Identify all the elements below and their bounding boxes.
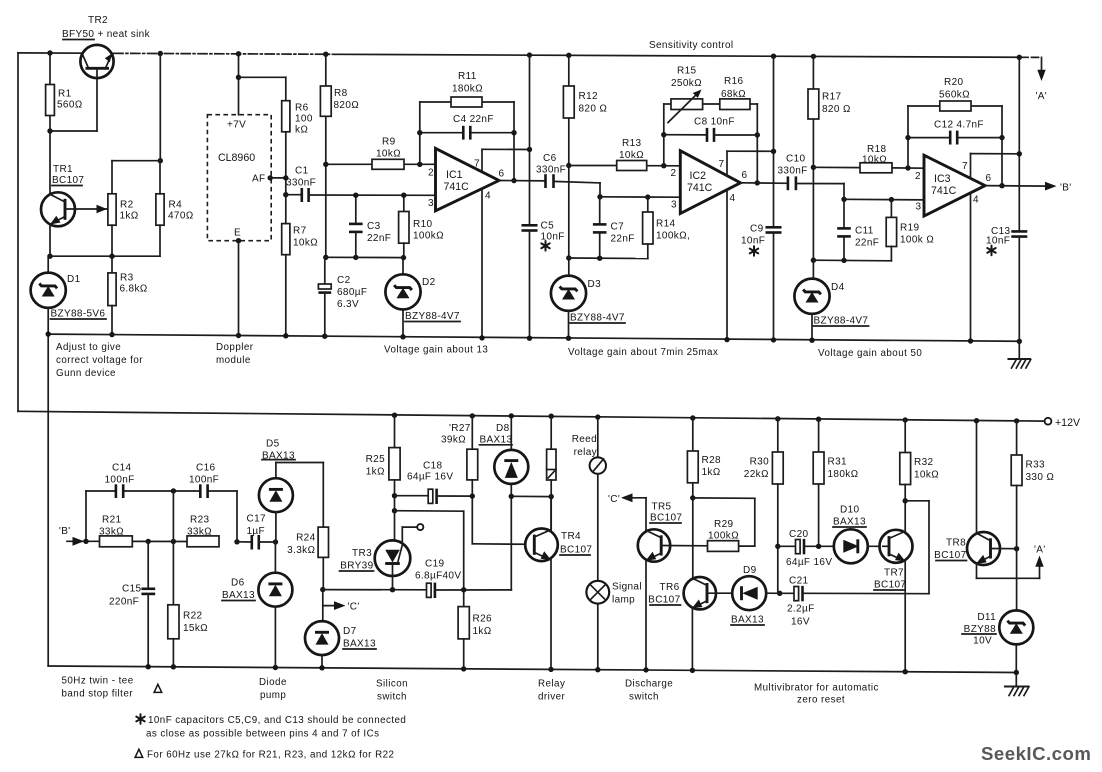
wire: TR4 base feed bbox=[472, 543, 534, 546]
svg-text:'C': 'C' bbox=[608, 494, 620, 505]
svg-text:R1: R1 bbox=[58, 89, 72, 100]
diode D6 (BAX13) bbox=[222, 542, 292, 670]
pin 4 IC2 bbox=[726, 190, 728, 340]
resistor R14 bbox=[643, 197, 691, 258]
svg-text:TR3: TR3 bbox=[352, 548, 372, 559]
capacitor C9 bbox=[741, 224, 782, 343]
svg-text:pump: pump bbox=[260, 690, 286, 701]
node 'A' bottom label bbox=[1034, 545, 1046, 556]
svg-text:BZY88-4V7: BZY88-4V7 bbox=[405, 311, 460, 322]
svg-text:4: 4 bbox=[485, 191, 491, 202]
resistor R9 bbox=[372, 137, 404, 170]
wire: R28 node down to TR6 collector bbox=[692, 498, 694, 578]
svg-text:22kΩ: 22kΩ bbox=[744, 469, 769, 480]
svg-text:BC107: BC107 bbox=[560, 545, 592, 556]
svg-text:560kΩ: 560kΩ bbox=[939, 90, 970, 101]
svg-text:BC107: BC107 bbox=[934, 550, 966, 561]
resistor R12 bbox=[563, 86, 607, 118]
svg-text:3: 3 bbox=[671, 200, 677, 211]
wire: R2/R4 top link from rail bbox=[112, 51, 163, 194]
svg-text:'B': 'B' bbox=[59, 526, 71, 537]
wire: twin-tee cap branch bbox=[83, 488, 239, 544]
wire: twin-tee resistor junction bbox=[132, 539, 187, 545]
svg-text:BAX13: BAX13 bbox=[222, 590, 255, 601]
capacitor C20 (electrolytic 64uF) bbox=[778, 529, 834, 568]
svg-text:R28: R28 bbox=[702, 455, 721, 466]
resistor R23 bbox=[187, 515, 219, 547]
svg-text:BZY88-4V7: BZY88-4V7 bbox=[814, 316, 869, 327]
svg-text:R3: R3 bbox=[120, 273, 134, 284]
svg-text:1µF: 1µF bbox=[247, 526, 265, 537]
resistor R30 bbox=[744, 416, 783, 593]
svg-text:C8 10nF: C8 10nF bbox=[694, 117, 735, 128]
svg-text:Doppler: Doppler bbox=[216, 342, 254, 353]
wire: +V line to IC3 pin7 / C13 bbox=[1017, 55, 1022, 232]
svg-text:BAX13: BAX13 bbox=[833, 517, 866, 528]
op-amp IC2 (741C) bbox=[671, 151, 774, 343]
wire: C10 to IC3 pin3 bbox=[841, 184, 924, 203]
capacitor C4 bbox=[420, 114, 514, 140]
svg-text:6: 6 bbox=[742, 170, 748, 181]
wire: R8 bias vertical and stage1 collect wire bbox=[323, 52, 406, 261]
svg-text:Voltage gain about 50: Voltage gain about 50 bbox=[818, 348, 922, 359]
svg-text:D5: D5 bbox=[266, 439, 280, 450]
transistor TR4 bbox=[525, 497, 592, 673]
svg-text:BZY88-5V6: BZY88-5V6 bbox=[51, 309, 106, 320]
wire: IC3 pin2 input bbox=[813, 165, 923, 170]
svg-text:3.3kΩ: 3.3kΩ bbox=[287, 545, 315, 556]
wire: TR3 cathode node bbox=[320, 587, 426, 621]
svg-text:741C: 741C bbox=[687, 182, 713, 194]
svg-text:R8: R8 bbox=[334, 88, 348, 99]
svg-text:10kΩ: 10kΩ bbox=[293, 238, 318, 249]
svg-text:C1: C1 bbox=[295, 166, 309, 177]
svg-text:15kΩ: 15kΩ bbox=[183, 623, 208, 634]
transistor TR7 bbox=[874, 501, 913, 675]
resistor R10 bbox=[399, 193, 445, 258]
wire: 0V bus top section bbox=[48, 334, 1019, 341]
zener diode D3 bbox=[551, 276, 625, 341]
svg-text:TR6: TR6 bbox=[660, 582, 680, 593]
resistor R22 bbox=[168, 491, 208, 670]
svg-text:R21: R21 bbox=[102, 515, 121, 526]
svg-text:D3: D3 bbox=[588, 279, 602, 290]
capacitor C2 (electrolytic 680uF) bbox=[318, 257, 367, 339]
text: SeekIC.com watermark bbox=[981, 743, 1091, 764]
svg-text:'R27: 'R27 bbox=[449, 423, 471, 434]
svg-text:IC1: IC1 bbox=[446, 169, 463, 181]
svg-text:R9: R9 bbox=[382, 137, 396, 148]
resistor R3 bbox=[108, 273, 148, 338]
svg-text:16V: 16V bbox=[791, 617, 810, 628]
svg-text:BAX13: BAX13 bbox=[343, 639, 376, 650]
svg-text:R30: R30 bbox=[750, 457, 769, 468]
svg-text:band stop filter: band stop filter bbox=[62, 689, 134, 700]
node 'C' arrow into TR5 bbox=[608, 493, 646, 530]
text: voltage gain notes bbox=[216, 342, 922, 366]
svg-text:E: E bbox=[234, 228, 241, 239]
svg-text:100k Ω: 100k Ω bbox=[900, 235, 934, 246]
svg-text:Relay: Relay bbox=[538, 679, 565, 690]
svg-text:1kΩ: 1kΩ bbox=[702, 467, 721, 478]
svg-text:100kΩ: 100kΩ bbox=[708, 531, 739, 542]
resistor R24 bbox=[287, 527, 328, 590]
svg-text:R22: R22 bbox=[183, 611, 202, 622]
svg-text:470Ω: 470Ω bbox=[168, 211, 194, 222]
svg-text:33kΩ: 33kΩ bbox=[187, 527, 212, 538]
svg-text:R16: R16 bbox=[724, 76, 743, 87]
svg-text:BC107: BC107 bbox=[648, 595, 680, 606]
svg-text:3: 3 bbox=[428, 198, 434, 209]
resistor R19 bbox=[886, 200, 934, 261]
svg-text:D9: D9 bbox=[743, 565, 757, 576]
svg-text:C4 22nF: C4 22nF bbox=[453, 114, 494, 125]
svg-text:Sensitivity control: Sensitivity control bbox=[649, 40, 733, 51]
zener diode D4 bbox=[794, 279, 868, 343]
svg-text:TR7: TR7 bbox=[884, 568, 904, 579]
svg-text:C11: C11 bbox=[855, 226, 874, 237]
svg-text:7: 7 bbox=[719, 159, 725, 170]
svg-text:C17: C17 bbox=[247, 514, 266, 525]
wire: +12V top rail bbox=[18, 53, 1042, 58]
diode D10 (BAX13) bbox=[833, 505, 883, 564]
svg-text:TR4: TR4 bbox=[561, 531, 581, 542]
wire: module +7V feed from rail bbox=[236, 51, 286, 115]
svg-text:IC2: IC2 bbox=[690, 170, 707, 182]
zener diode D2 bbox=[385, 258, 460, 340]
resistor R27 bbox=[441, 413, 478, 544]
svg-text:C5: C5 bbox=[541, 221, 555, 232]
svg-text:TR8: TR8 bbox=[946, 538, 966, 549]
svg-text:10nF: 10nF bbox=[541, 232, 565, 243]
svg-text:250kΩ: 250kΩ bbox=[671, 78, 702, 89]
capacitor C13 bbox=[986, 226, 1027, 344]
svg-text:kΩ: kΩ bbox=[295, 125, 308, 136]
capacitor C15 bbox=[109, 541, 155, 669]
svg-text:68kΩ: 68kΩ bbox=[721, 89, 746, 100]
svg-text:C9: C9 bbox=[750, 224, 764, 235]
svg-text:relay: relay bbox=[574, 447, 597, 458]
resistor R33 bbox=[1011, 418, 1054, 610]
svg-text:10nF capacitors C5,C9, and C13: 10nF capacitors C5,C9, and C13 should be… bbox=[148, 715, 406, 726]
wire: IC2 feedback loop bbox=[661, 104, 760, 186]
wire: +V line to IC2 pin7 / C9 bbox=[771, 54, 776, 228]
svg-text:R31: R31 bbox=[828, 457, 847, 468]
svg-text:3: 3 bbox=[916, 202, 922, 213]
svg-text:D2: D2 bbox=[422, 277, 436, 288]
svg-text:IC3: IC3 bbox=[934, 173, 951, 185]
svg-text:C19: C19 bbox=[425, 559, 444, 570]
svg-text:R26: R26 bbox=[473, 614, 492, 625]
resistor R13 bbox=[617, 138, 647, 171]
svg-text:10kΩ: 10kΩ bbox=[914, 470, 939, 481]
svg-text:100nF: 100nF bbox=[189, 475, 219, 486]
wire: AF output node bbox=[268, 132, 302, 198]
svg-text:CL8960: CL8960 bbox=[218, 152, 255, 164]
svg-text:680µF: 680µF bbox=[337, 287, 367, 298]
pin 7 IC1 bbox=[481, 149, 483, 172]
svg-text:R11: R11 bbox=[458, 71, 477, 82]
svg-text:64µF 16V: 64µF 16V bbox=[786, 557, 832, 568]
variable resistor R15 bbox=[668, 66, 703, 123]
wire: IC3 feedback loop bbox=[905, 106, 1004, 188]
svg-text:correct voltage for: correct voltage for bbox=[56, 355, 143, 366]
svg-text:BRY39: BRY39 bbox=[340, 561, 373, 572]
svg-text:module: module bbox=[216, 355, 251, 366]
capacitor C3 bbox=[349, 193, 391, 258]
svg-text:D4: D4 bbox=[831, 282, 845, 293]
transistor TR2 bbox=[50, 15, 151, 131]
svg-text:6.8µF40V: 6.8µF40V bbox=[415, 571, 461, 582]
svg-text:R19: R19 bbox=[900, 223, 919, 234]
svg-text:switch: switch bbox=[629, 692, 659, 703]
svg-text:BFY50 + neat sink: BFY50 + neat sink bbox=[62, 29, 151, 40]
svg-text:2: 2 bbox=[671, 168, 677, 179]
capacitor C8 bbox=[664, 117, 758, 142]
svg-text:as close as possible between p: as close as possible between pins 4 and … bbox=[146, 729, 379, 740]
wire: TR3 anode node taps bbox=[392, 493, 464, 590]
resistor R21 bbox=[99, 515, 132, 547]
svg-text:D11: D11 bbox=[977, 612, 996, 623]
wire: TR8 emitter to 'A' bbox=[977, 556, 1044, 579]
node 'C' tap arrow (diode pump output) bbox=[323, 601, 360, 612]
resistor R18 bbox=[860, 144, 892, 173]
svg-text:6.3V: 6.3V bbox=[337, 299, 359, 310]
svg-text:lamp: lamp bbox=[612, 595, 635, 606]
svg-text:Reed: Reed bbox=[572, 434, 597, 445]
resistor R11 bbox=[451, 71, 483, 107]
wire: IC2 pin2 input bbox=[569, 163, 679, 168]
svg-text:R6: R6 bbox=[295, 103, 309, 114]
svg-text:330 Ω: 330 Ω bbox=[1026, 472, 1055, 483]
svg-text:22nF: 22nF bbox=[611, 234, 635, 245]
transistor TR5 bbox=[638, 502, 708, 673]
svg-text:D6: D6 bbox=[231, 578, 245, 589]
svg-text:Diode: Diode bbox=[259, 677, 287, 688]
wire: C6 to IC2 pin3 bbox=[597, 183, 679, 200]
svg-text:TR2: TR2 bbox=[88, 15, 108, 26]
svg-text:330nF: 330nF bbox=[778, 166, 808, 177]
svg-text:BAX13: BAX13 bbox=[480, 435, 513, 446]
svg-text:BZY88-4V7: BZY88-4V7 bbox=[570, 313, 625, 324]
wire: IC1 feedback loop bbox=[417, 102, 517, 183]
svg-text:'B': 'B' bbox=[1060, 183, 1072, 194]
svg-text:'C': 'C' bbox=[348, 602, 360, 613]
svg-text:AF: AF bbox=[252, 174, 265, 185]
svg-text:R7: R7 bbox=[293, 226, 307, 237]
signal lamp bbox=[586, 581, 642, 673]
svg-text:64µF 16V: 64µF 16V bbox=[407, 472, 453, 483]
wire: TR1 emitter bus bbox=[47, 254, 160, 259]
svg-text:4: 4 bbox=[730, 193, 736, 204]
zener diode D1 bbox=[31, 256, 106, 337]
pin 7 IC3 bbox=[970, 154, 972, 179]
svg-text:R2: R2 bbox=[120, 200, 134, 211]
resistor R32 bbox=[900, 417, 939, 503]
node 'A' top arrow bbox=[1036, 57, 1048, 102]
svg-text:C3: C3 bbox=[367, 221, 381, 232]
svg-text:D8: D8 bbox=[496, 423, 510, 434]
svg-text:BC107: BC107 bbox=[874, 580, 906, 591]
wire: left +12V vertical bbox=[17, 53, 19, 411]
wire: IC1 pin2 input bbox=[326, 162, 436, 167]
diode D5 (BAX13) bbox=[259, 439, 323, 543]
svg-text:+12V: +12V bbox=[1055, 417, 1081, 429]
svg-text:10kΩ: 10kΩ bbox=[376, 149, 401, 160]
svg-text:+7V: +7V bbox=[227, 120, 246, 131]
svg-text:10V: 10V bbox=[973, 636, 992, 647]
wire: IC1 output to C6 bbox=[499, 180, 546, 182]
capacitor C6 bbox=[536, 153, 600, 188]
svg-text:6.8kΩ: 6.8kΩ bbox=[120, 284, 148, 295]
svg-text:R14: R14 bbox=[656, 219, 675, 230]
svg-text:R20: R20 bbox=[944, 77, 963, 88]
svg-text:Signal: Signal bbox=[612, 582, 642, 593]
svg-text:C16: C16 bbox=[196, 463, 215, 474]
wire: bottom 0V bus bbox=[48, 666, 1016, 673]
svg-text:Discharge: Discharge bbox=[625, 679, 673, 690]
svg-text:Voltage gain about 13: Voltage gain about 13 bbox=[384, 345, 488, 356]
op-amp IC3 (741C) bbox=[915, 154, 1019, 344]
resistor R20 bbox=[939, 77, 971, 111]
svg-text:7: 7 bbox=[962, 161, 968, 172]
svg-text:C15: C15 bbox=[122, 584, 141, 595]
svg-text:'A': 'A' bbox=[1034, 545, 1046, 556]
svg-text:33kΩ: 33kΩ bbox=[99, 527, 124, 538]
svg-text:2: 2 bbox=[428, 168, 434, 179]
transistor TR8 bbox=[934, 418, 1019, 565]
capacitor C21 (electrolytic 2.2uF) bbox=[780, 576, 929, 628]
svg-text:BC107: BC107 bbox=[52, 175, 84, 186]
svg-text:C10: C10 bbox=[786, 154, 805, 165]
svg-text:R12: R12 bbox=[579, 91, 598, 102]
capacitor C18 (electrolytic 64uF) bbox=[395, 461, 473, 505]
wire: R32/TR7 collector to C21 loop bbox=[905, 501, 929, 594]
svg-text:D7: D7 bbox=[343, 626, 357, 637]
svg-text:1kΩ: 1kΩ bbox=[366, 467, 385, 478]
zener diode D11 bbox=[962, 610, 1033, 675]
svg-text:2.2µF: 2.2µF bbox=[787, 604, 815, 615]
svg-text:10kΩ: 10kΩ bbox=[619, 150, 644, 161]
svg-text:R18: R18 bbox=[867, 144, 886, 155]
svg-text:4: 4 bbox=[973, 195, 979, 206]
wire: module E pin to 0V bbox=[236, 238, 241, 338]
svg-text:6: 6 bbox=[986, 173, 992, 184]
svg-text:R29: R29 bbox=[714, 519, 733, 530]
svg-text:R4: R4 bbox=[169, 200, 183, 211]
wire: R12 bias vertical / stage2 collect wire bbox=[566, 53, 648, 276]
wire: R28 to R29 link bbox=[693, 498, 755, 546]
svg-text:R33: R33 bbox=[1026, 460, 1045, 471]
svg-text:50Hz twin - tee: 50Hz twin - tee bbox=[62, 676, 134, 687]
svg-text:560Ω: 560Ω bbox=[57, 100, 83, 111]
resistor R1 bbox=[46, 85, 83, 116]
svg-text:741C: 741C bbox=[931, 185, 957, 197]
svg-text:1kΩ: 1kΩ bbox=[473, 626, 492, 637]
wire: +V line to pin7/C5 bbox=[527, 52, 532, 225]
svg-text:BC107: BC107 bbox=[650, 513, 682, 524]
reed relay coil bbox=[547, 414, 597, 531]
svg-text:6: 6 bbox=[499, 169, 505, 180]
wire: IC3 output to 'B' bbox=[985, 182, 1056, 191]
svg-text:C12 4.7nF: C12 4.7nF bbox=[934, 120, 984, 131]
wire: R1/TR2 node on rail down to TR1 bbox=[47, 50, 52, 194]
capacitor C11 bbox=[837, 199, 879, 260]
svg-text:R23: R23 bbox=[190, 515, 209, 526]
svg-text:2: 2 bbox=[915, 171, 921, 182]
wire: R17 bias vertical / stage3 collect wire bbox=[811, 54, 892, 279]
svg-text:Silicon: Silicon bbox=[376, 679, 408, 690]
svg-text:D1: D1 bbox=[67, 274, 81, 285]
thyristor TR3 (BRY39) bbox=[340, 524, 424, 590]
resistor R31 bbox=[813, 417, 858, 550]
svg-text:820 Ω: 820 Ω bbox=[579, 104, 608, 115]
svg-text:10kΩ: 10kΩ bbox=[862, 155, 887, 166]
svg-text:C20: C20 bbox=[789, 529, 808, 540]
capacitor C5 bbox=[522, 221, 565, 341]
pin 7 IC2 bbox=[726, 151, 728, 175]
resistor R17 bbox=[808, 89, 851, 119]
diode D8 (BAX13) bbox=[480, 413, 552, 590]
svg-text:R17: R17 bbox=[822, 92, 841, 103]
reed relay contact bbox=[590, 414, 606, 581]
svg-text:10nF: 10nF bbox=[986, 236, 1010, 247]
svg-text:D10: D10 bbox=[840, 505, 859, 516]
capacitor C12 bbox=[908, 120, 1002, 145]
svg-text:R10: R10 bbox=[413, 219, 432, 230]
svg-text:Adjust to give: Adjust to give bbox=[56, 342, 121, 353]
pin 4 IC1 bbox=[481, 189, 483, 338]
resistor R25 bbox=[366, 413, 401, 541]
svg-text:switch: switch bbox=[377, 692, 407, 703]
wire: 0V drop to bottom section bbox=[47, 334, 49, 666]
svg-text:R13: R13 bbox=[622, 138, 641, 149]
svg-text:741C: 741C bbox=[444, 181, 470, 193]
svg-text:For 60Hz use 27kΩ for R21, R23: For 60Hz use 27kΩ for R21, R23, and 12kΩ… bbox=[147, 750, 394, 761]
svg-text:330nF: 330nF bbox=[536, 165, 566, 176]
svg-text:C2: C2 bbox=[337, 275, 351, 286]
ground (top section) bbox=[1009, 341, 1031, 368]
svg-text:100kΩ: 100kΩ bbox=[413, 231, 444, 242]
svg-text:R24: R24 bbox=[296, 533, 315, 544]
resistor R6 bbox=[282, 101, 313, 136]
resistor R16 bbox=[720, 76, 750, 110]
text: footnotes bbox=[135, 714, 406, 760]
diode D7 (BAX13) bbox=[305, 621, 376, 670]
transistor TR1 bbox=[41, 164, 108, 256]
svg-text:180kΩ: 180kΩ bbox=[828, 469, 859, 480]
capacitor C1 bbox=[286, 166, 436, 203]
svg-text:Voltage gain about 7min 25max: Voltage gain about 7min 25max bbox=[568, 347, 718, 358]
svg-text:R32: R32 bbox=[914, 457, 933, 468]
svg-text:22nF: 22nF bbox=[855, 238, 879, 249]
svg-text:C7: C7 bbox=[611, 222, 625, 233]
svg-text:180kΩ: 180kΩ bbox=[452, 84, 483, 95]
capacitor C7 bbox=[593, 197, 635, 258]
svg-text:TR5: TR5 bbox=[652, 502, 672, 513]
svg-text:C18: C18 bbox=[423, 461, 442, 472]
svg-text:Gunn device: Gunn device bbox=[56, 368, 116, 379]
svg-text:100kΩ,: 100kΩ, bbox=[656, 231, 690, 242]
resistor R4 bbox=[156, 161, 194, 257]
svg-text:820Ω: 820Ω bbox=[334, 100, 360, 111]
capacitor C17 bbox=[237, 514, 278, 550]
capacitor C19 (electrolytic 6.8uF) bbox=[390, 559, 512, 599]
svg-text:R15: R15 bbox=[677, 66, 696, 77]
svg-text:220nF: 220nF bbox=[109, 597, 139, 608]
capacitor C10 bbox=[741, 154, 845, 191]
capacitor C14 bbox=[105, 463, 135, 499]
